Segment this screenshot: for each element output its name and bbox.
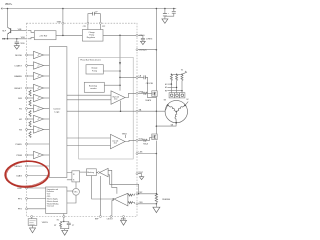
- charge pump regulator block: [82, 30, 103, 42]
- svg-text:CSOUT: CSOUT: [107, 219, 114, 221]
- capacitor CBOOTA: [138, 75, 156, 97]
- bootstrap monitor block: [84, 82, 104, 92]
- pin GHA: [136, 92, 138, 94]
- ground (below C1): [162, 19, 168, 23]
- resistor hall pullup 1: [170, 75, 172, 80]
- svg-text:VBB: VBB: [57, 22, 62, 24]
- svg-text:Phase A of three phases: Phase A of three phases: [80, 58, 101, 61]
- pin VDRAIN: [136, 49, 138, 51]
- pin CSOUT: [110, 216, 112, 218]
- phase detail box (Phase A of three phases): [79, 57, 134, 159]
- blanking block: [87, 169, 97, 176]
- wire VREG internal distribution: [119, 35, 121, 90]
- svg-text:Charge: Charge: [91, 67, 97, 70]
- resistor pull H3: [29, 132, 31, 138]
- resistor pull RESET: [29, 90, 31, 96]
- resistor amp input top: [127, 194, 129, 196]
- wire OSC to RS latch: [75, 182, 77, 189]
- IC package outline (dashed): [27, 23, 138, 216]
- ground (PGND): [139, 177, 143, 180]
- motor M (3-phase BLDC): [165, 100, 187, 123]
- wire VBAT+ top rail: [2, 8, 176, 10]
- resistor amp input bottom: [127, 202, 129, 204]
- svg-text:Logic: Logic: [54, 111, 60, 113]
- potentiometer block: [28, 219, 37, 226]
- wire REF internal: [100, 176, 102, 216]
- svg-text:CT: CT: [72, 225, 74, 227]
- capacitor CVDD: [15, 39, 26, 46]
- svg-text:BRAKE: BRAKE: [14, 75, 22, 78]
- svg-text:+5V Ref: +5V Ref: [39, 35, 47, 37]
- svg-text:VDSTH: VDSTH: [42, 222, 49, 224]
- wire diag to OSC: [67, 190, 73, 192]
- op-amp low side drive: [111, 134, 126, 149]
- wire control to low side drive inputs: [67, 138, 111, 146]
- resistor RGLA (low side): [138, 139, 143, 141]
- svg-text:DIAG: DIAG: [16, 174, 22, 177]
- svg-text:TACHO: TACHO: [14, 165, 22, 168]
- svg-text:SLP: SLP: [2, 30, 7, 32]
- regulator +5V Ref U-a: [34, 31, 56, 40]
- svg-text:VBAT+: VBAT+: [5, 3, 13, 6]
- svg-text:CBOOTA: CBOOTA: [146, 82, 154, 85]
- wire comparator input bottom: [108, 175, 139, 194]
- svg-text:RESET: RESET: [15, 88, 23, 90]
- wire SA sense to motor terminal: [138, 105, 168, 111]
- pin CP2: [94, 14, 100, 23]
- ground (below CVDD): [14, 46, 19, 50]
- wire comparator input top: [108, 170, 117, 194]
- wire VDD line: [3, 38, 27, 40]
- op-amp high side drive: [111, 91, 125, 105]
- svg-text:H2: H2: [165, 87, 167, 89]
- svg-text:V5: V5: [181, 69, 183, 71]
- svg-text:High side: High side: [113, 96, 120, 98]
- resistor RGATE (high side): [138, 92, 143, 94]
- svg-text:CVDD: CVDD: [20, 43, 26, 45]
- pin AGND: [123, 216, 125, 218]
- wire CA from boost node: [120, 76, 136, 78]
- svg-text:CP1: CP1: [83, 26, 86, 28]
- wire control to high side drive inputs: [67, 95, 111, 100]
- resistor pull DIR: [29, 100, 31, 106]
- ground (RSENSE): [153, 207, 160, 212]
- wire charge pump to VREG line: [103, 70, 120, 72]
- resistor hall pullup 3: [181, 75, 183, 80]
- pin CA: [136, 76, 138, 78]
- wire bootstrap monitor to VREG line: [104, 84, 120, 86]
- svg-text:Pump: Pump: [92, 70, 97, 72]
- hall sensor connector: [169, 93, 185, 98]
- svg-text:CVREG: CVREG: [146, 39, 153, 41]
- wire amp output to CSOUT: [112, 199, 113, 216]
- svg-text:CP2: CP2: [102, 26, 105, 28]
- charge pump (top-off) block: [86, 65, 103, 74]
- pin CSN: [136, 203, 138, 205]
- pin GLA: [136, 139, 138, 141]
- resistor hall pullup 2: [176, 75, 178, 80]
- ground (bottom-left): [30, 228, 36, 233]
- svg-text:Bootstrap: Bootstrap: [89, 84, 97, 87]
- wire blanking to amp output node: [92, 176, 114, 199]
- wire high side drive output to GHA: [125, 93, 136, 97]
- pin VREG: [136, 34, 138, 36]
- svg-text:Control: Control: [53, 108, 61, 111]
- svg-text:DIR: DIR: [18, 98, 22, 100]
- pin VBB: [62, 9, 64, 23]
- ground (RC network): [62, 230, 68, 235]
- pin RC: [63, 216, 65, 218]
- capacitor CVREG to ground: [138, 35, 153, 44]
- svg-text:RSENSE: RSENSE: [162, 199, 171, 201]
- svg-text:RT: RT: [54, 225, 56, 227]
- latch RS: [72, 171, 80, 182]
- wire pin V5B to +5V Ref: [28, 31, 35, 33]
- svg-text:H1: H1: [165, 84, 167, 86]
- svg-text:ESF: ESF: [18, 188, 23, 190]
- pin SA: [136, 110, 138, 112]
- RC network RT CT: [54, 218, 74, 231]
- capacitor CP: [93, 12, 95, 16]
- junction dots on top rail: [7, 8, 9, 10]
- wire +5V Ref to charge pump regulator: [56, 34, 82, 36]
- control logic block: [49, 47, 67, 178]
- svg-text:OSC: OSC: [74, 192, 79, 194]
- svg-text:monitor: monitor: [90, 87, 97, 90]
- svg-text:PWM: PWM: [16, 155, 22, 157]
- pin CSP: [136, 193, 138, 195]
- wire RS to blanking: [80, 171, 87, 173]
- ground (AGND): [121, 220, 127, 225]
- wire low side drive output to GLA: [125, 140, 136, 141]
- capacitor C1 bulk (electrolytic): [163, 9, 170, 19]
- transistor Q-HS (N-MOSFET): [152, 91, 157, 97]
- svg-text:V5B: V5B: [18, 29, 22, 31]
- wire charge pump reg to VREG pin: [103, 34, 136, 36]
- wire base drive to V5B pin: [11, 30, 27, 32]
- pin REF: [99, 216, 101, 218]
- comparator (current limit): [96, 168, 108, 177]
- pin PGND right: [136, 173, 138, 175]
- transistor Q-LS (N-MOSFET): [152, 134, 157, 140]
- oscillator OSC: [73, 188, 80, 195]
- wire RSENSE to ground: [155, 204, 157, 207]
- highlight red ellipse around TACHO DIAG: [4, 160, 49, 188]
- pin CP1: [87, 24, 89, 29]
- svg-text:MODE: MODE: [15, 55, 22, 57]
- pin VDSTH (bottom-left): [31, 216, 33, 218]
- svg-text:COAST: COAST: [14, 64, 22, 67]
- svg-text:Regulator: Regulator: [87, 36, 96, 39]
- svg-text:Blanking: Blanking: [87, 172, 94, 174]
- wire pin VDD to +5V Ref: [28, 38, 35, 39]
- svg-text:RGATE: RGATE: [145, 99, 152, 102]
- wire hall pull-up rail: [171, 73, 182, 75]
- svg-text:H3: H3: [165, 90, 167, 92]
- resistor pull H1: [29, 111, 31, 117]
- resistor pull H2: [29, 121, 31, 127]
- wire VBAT vertical to transistor: [7, 9, 9, 28]
- svg-text:VREG: VREG: [122, 133, 127, 135]
- wire SA sense / feedback: [67, 110, 136, 112]
- diagnostics and protection block: [46, 187, 67, 214]
- svg-text:•Low Load: •Low Load: [47, 206, 54, 208]
- svg-text:Low side: Low side: [112, 140, 118, 142]
- wire control to RS latch: [67, 173, 72, 180]
- capacitor C2: [165, 9, 176, 17]
- svg-text:VDD: VDD: [21, 37, 26, 39]
- wire OSC to RC pin: [64, 195, 76, 215]
- svg-text:VDRAIN: VDRAIN: [139, 49, 147, 52]
- transistor Q1 (PNP pass): [2, 27, 11, 39]
- wire VBB drain rail: [155, 9, 157, 194]
- node SC stub: [185, 102, 188, 106]
- svg-text:PGND: PGND: [15, 144, 22, 146]
- node VREG stub for low side drive: [125, 135, 127, 138]
- wire phase output to motor bottom: [156, 123, 176, 126]
- resistor RSENSE: [155, 194, 157, 203]
- op-amp current sense: [112, 193, 128, 206]
- pin LSS: [136, 153, 138, 155]
